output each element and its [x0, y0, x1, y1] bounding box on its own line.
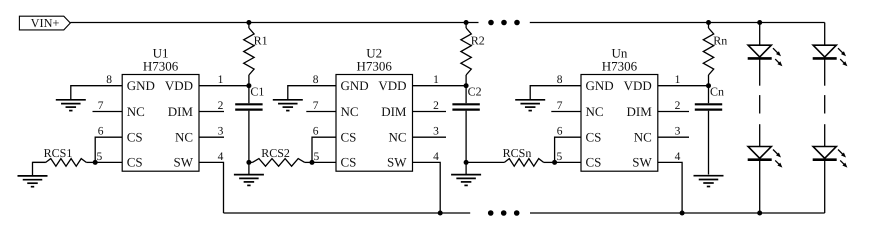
wire U2 pin 7 stub (NC): [306, 111, 336, 113]
Un pin name SW: [632, 155, 652, 170]
Un pin name CS (pin 5): [586, 155, 602, 170]
U1 pin name CS (pin 6): [127, 130, 143, 145]
wire U1 pin 4 (SW) to bottom rail: [199, 162, 224, 213]
svg-text:CS: CS: [586, 155, 602, 170]
svg-text:DIM: DIM: [627, 104, 653, 119]
dashed continuation wire LED string 2: [824, 95, 826, 113]
label R1: [254, 34, 268, 48]
label H7306 (Un): [602, 59, 638, 74]
svg-text:1: 1: [433, 74, 439, 86]
wire LED string 2 to bottom rail: [824, 160, 826, 213]
U2 pin number 7: [313, 100, 319, 112]
node C2/RCS ground junction: [464, 160, 469, 165]
IC Un H7306 body: [581, 75, 658, 172]
label Rn: [713, 34, 727, 48]
svg-text:DIM: DIM: [381, 104, 407, 119]
wire bottom rail left segment: [224, 212, 471, 214]
svg-text:Rn: Rn: [713, 34, 727, 48]
Un pin name CS (pin 6): [586, 130, 602, 145]
label RCS2: [261, 146, 290, 160]
label R2: [471, 34, 485, 48]
U1 pin number 7: [98, 100, 104, 112]
svg-text:SW: SW: [174, 155, 194, 170]
U1 pin number 8: [106, 74, 112, 86]
svg-text:7: 7: [98, 100, 104, 112]
svg-text:NC: NC: [175, 130, 193, 145]
svg-text:6: 6: [98, 126, 104, 138]
U1 pin number 4: [218, 151, 224, 163]
Un pin number 5: [557, 151, 563, 163]
U2 pin number 2: [433, 100, 439, 112]
wire U1 pin 8 to ground: [71, 86, 122, 100]
wire U2 pin 2 stub (DIM): [413, 111, 447, 113]
node U2 VDD junction: [464, 83, 469, 88]
label U1: [153, 46, 169, 61]
svg-text:VDD: VDD: [378, 78, 406, 93]
wire LED string 2 from top rail: [824, 23, 826, 46]
wire Un pin 4 (SW) to bottom rail: [658, 162, 682, 213]
svg-text:RCS1: RCS1: [44, 146, 73, 160]
ground at U1 pin 8: [56, 100, 86, 111]
U1 pin number 3: [218, 126, 224, 138]
U1 pin name NC (pin 3): [175, 130, 193, 145]
svg-text:CS: CS: [341, 155, 357, 170]
wire U1 pin 1 (VDD) to R1/C1: [199, 85, 249, 87]
svg-text:8: 8: [313, 74, 319, 86]
wire Un pin 1 (VDD) to Rn/Cn: [658, 85, 709, 87]
node bottom rail at Un SW: [680, 211, 685, 216]
Un pin number 8: [557, 74, 563, 86]
svg-text:DIM: DIM: [168, 104, 194, 119]
node top rail at LED string 1: [757, 20, 762, 25]
svg-text:8: 8: [106, 74, 112, 86]
wire LED string 2 lower segment: [824, 124, 826, 146]
resistor RCS2: [249, 159, 312, 167]
Un pin name DIM: [627, 104, 653, 119]
wire Un pin 8 to ground: [530, 86, 581, 100]
svg-text:7: 7: [313, 100, 319, 112]
svg-text:CS: CS: [586, 130, 602, 145]
svg-text:C2: C2: [468, 84, 482, 98]
U2 pin name CS (pin 5): [341, 155, 357, 170]
svg-text:H7306: H7306: [143, 59, 179, 74]
svg-text:1: 1: [218, 74, 224, 86]
node bottom rail at U2 SW: [438, 211, 443, 216]
wire LED string 1 upper segment: [759, 58, 761, 85]
wire C2 ground stub: [465, 162, 467, 174]
label H7306 (U1): [143, 59, 179, 74]
svg-text:2: 2: [218, 100, 224, 112]
LED LED string 1 lower: [748, 147, 783, 168]
wire U2 pin 6 to CS node: [312, 137, 336, 162]
svg-text:5: 5: [557, 151, 563, 163]
svg-text:NC: NC: [586, 104, 604, 119]
svg-text:RCSn: RCSn: [503, 146, 532, 160]
svg-text:CS: CS: [127, 155, 143, 170]
Un pin number 3: [675, 126, 681, 138]
U2 pin number 8: [313, 74, 319, 86]
ellipsis continuation dots (bottom rail): [488, 210, 520, 216]
Un pin number 6: [557, 126, 563, 138]
ground at U2 pin 8: [273, 100, 303, 111]
node top rail at R2: [464, 20, 469, 25]
svg-text:R1: R1: [254, 34, 268, 48]
svg-text:7: 7: [557, 100, 563, 112]
LED LED string 2 upper: [813, 45, 848, 66]
U1 pin number 2: [218, 100, 224, 112]
Un pin name NC (pin 3): [634, 130, 652, 145]
resistor R2: [461, 23, 471, 86]
U2 pin name CS (pin 6): [341, 130, 357, 145]
svg-text:6: 6: [313, 126, 319, 138]
IC U1 H7306 body: [122, 75, 199, 172]
ground at Un pin 8: [515, 100, 545, 111]
wire Un pin 3 stub (NC): [658, 136, 689, 138]
wire U1 pin 7 stub (NC): [93, 111, 123, 113]
svg-text:Cn: Cn: [710, 84, 724, 98]
net label VIN+: [19, 16, 70, 30]
U2 pin number 1: [433, 74, 439, 86]
wire U2 pin 3 stub (NC): [413, 136, 447, 138]
U1 pin name GND: [127, 78, 155, 93]
resistor R1: [244, 23, 254, 86]
wire LED string 2 upper segment: [824, 58, 826, 85]
svg-text:SW: SW: [632, 155, 652, 170]
svg-text:RCS2: RCS2: [261, 146, 290, 160]
U1 pin name SW: [174, 155, 194, 170]
U2 pin name NC (pin 3): [388, 130, 406, 145]
Un pin name GND: [586, 78, 614, 93]
svg-text:H7306: H7306: [602, 59, 638, 74]
svg-text:NC: NC: [634, 130, 652, 145]
resistor RCS1: [33, 159, 96, 167]
wire RCS1 to ground: [33, 162, 46, 175]
ground at RCS1: [18, 176, 48, 187]
svg-text:3: 3: [433, 126, 439, 138]
svg-text:GND: GND: [127, 78, 155, 93]
wire U1 pin 2 stub (DIM): [199, 111, 224, 113]
U1 pin name CS (pin 5): [127, 155, 143, 170]
U2 pin name DIM: [381, 104, 407, 119]
U2 pin name SW: [387, 155, 407, 170]
svg-text:4: 4: [675, 151, 681, 163]
U2 pin name NC (pin 7): [341, 104, 359, 119]
resistor Rn: [703, 23, 713, 86]
node top rail at Rn: [706, 20, 711, 25]
wire Un pin 5 stub: [555, 161, 581, 163]
label U2: [366, 46, 382, 61]
node C1/RCS ground junction: [246, 160, 251, 165]
wire top rail right segment: [530, 22, 825, 24]
U2 pin name GND: [341, 78, 369, 93]
ground at C2: [451, 175, 481, 186]
svg-text:SW: SW: [387, 155, 407, 170]
svg-text:2: 2: [675, 100, 681, 112]
U2 pin number 4: [433, 151, 439, 163]
Un pin number 2: [675, 100, 681, 112]
dashed continuation wire LED string 1: [759, 95, 761, 113]
label RCS1: [44, 146, 73, 160]
svg-text:VDD: VDD: [165, 78, 193, 93]
node U2 CS junction: [310, 160, 315, 165]
wire VIN+ top rail left segment: [70, 22, 478, 24]
label RCSn: [503, 146, 532, 160]
wire U2 pin 8 to ground: [288, 86, 336, 100]
U1 pin number 1: [218, 74, 224, 86]
Un pin number 4: [675, 151, 681, 163]
capacitor C2: [452, 86, 479, 163]
resistor RCSn: [466, 159, 554, 167]
wire C1 ground stub: [248, 162, 250, 174]
U2 pin number 6: [313, 126, 319, 138]
svg-text:GND: GND: [586, 78, 614, 93]
svg-text:4: 4: [433, 151, 439, 163]
U1 pin name NC (pin 7): [127, 104, 145, 119]
ground at Cn: [694, 176, 724, 187]
svg-text:6: 6: [557, 126, 563, 138]
wire U2 pin 5 stub: [312, 161, 336, 163]
svg-text:C1: C1: [250, 84, 264, 98]
U1 pin name VDD: [165, 78, 193, 93]
Un pin number 7: [557, 100, 563, 112]
wire U2 pin 4 (SW) to bottom rail: [413, 162, 441, 213]
U1 pin number 6: [98, 126, 104, 138]
svg-text:H7306: H7306: [357, 59, 393, 74]
svg-text:2: 2: [433, 100, 439, 112]
U2 pin number 3: [433, 126, 439, 138]
svg-text:NC: NC: [388, 130, 406, 145]
wire LED string 1 lower segment: [759, 124, 761, 146]
wire U1 pin 3 stub (NC): [199, 136, 224, 138]
svg-text:3: 3: [675, 126, 681, 138]
svg-text:R2: R2: [471, 34, 485, 48]
capacitor Cn: [695, 86, 722, 175]
svg-text:5: 5: [314, 151, 320, 163]
svg-text:VDD: VDD: [624, 78, 652, 93]
wire Un pin 7 stub (NC): [551, 111, 581, 113]
svg-text:1: 1: [675, 74, 681, 86]
U2 pin number 5: [314, 151, 320, 163]
wire U2 pin 1 (VDD) to R2/C2: [413, 85, 467, 87]
U1 pin number 5: [97, 151, 103, 163]
node Un VDD junction: [706, 83, 711, 88]
svg-text:CS: CS: [127, 130, 143, 145]
label H7306 (U2): [357, 59, 393, 74]
label C1: [250, 84, 264, 98]
LED LED string 1 upper: [748, 45, 783, 66]
node Un CS junction: [552, 160, 557, 165]
Un pin name NC (pin 7): [586, 104, 604, 119]
svg-text:5: 5: [97, 151, 103, 163]
svg-text:GND: GND: [341, 78, 369, 93]
U1 pin name DIM: [168, 104, 194, 119]
ellipsis continuation dots (top rail): [488, 20, 520, 26]
wire LED string 1 to bottom rail: [759, 160, 761, 213]
wire bottom rail right segment: [530, 212, 825, 214]
node U1 VDD junction: [246, 83, 251, 88]
svg-text:NC: NC: [127, 104, 145, 119]
IC U2 H7306 body: [336, 75, 413, 172]
svg-text:VIN+: VIN+: [31, 16, 60, 30]
Un pin name VDD: [624, 78, 652, 93]
LED LED string 2 lower: [813, 147, 848, 168]
Un pin number 1: [675, 74, 681, 86]
wire U1 pin 5 stub: [95, 161, 122, 163]
wire Un pin 2 stub (DIM): [658, 111, 689, 113]
svg-text:8: 8: [557, 74, 563, 86]
label Un: [611, 46, 627, 61]
wire LED string 1 from top rail: [759, 23, 761, 46]
svg-text:4: 4: [218, 151, 224, 163]
label Cn: [710, 84, 724, 98]
U2 pin name VDD: [378, 78, 406, 93]
svg-text:CS: CS: [341, 130, 357, 145]
node top rail at R1: [246, 20, 251, 25]
label C2: [468, 84, 482, 98]
svg-text:3: 3: [218, 126, 224, 138]
node bottom rail at LED string 1: [757, 211, 762, 216]
svg-text:NC: NC: [341, 104, 359, 119]
ground at C1: [234, 175, 264, 186]
capacitor C1: [235, 86, 262, 163]
wire U1 pin 6 to CS node: [95, 137, 122, 162]
node U1 CS junction: [93, 160, 98, 165]
wire Un pin 6 to CS node: [555, 137, 581, 162]
